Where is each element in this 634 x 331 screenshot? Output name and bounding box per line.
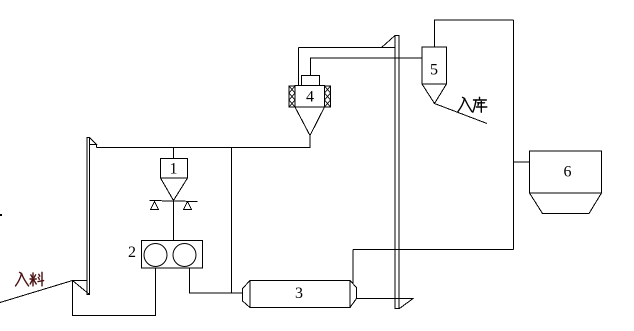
svg-text:1: 1 — [170, 161, 178, 178]
svg-text:6: 6 — [564, 164, 572, 181]
svg-text:2: 2 — [128, 244, 136, 261]
svg-text:3: 3 — [295, 285, 303, 302]
svg-text:5: 5 — [430, 62, 438, 79]
svg-text:4: 4 — [306, 89, 314, 106]
